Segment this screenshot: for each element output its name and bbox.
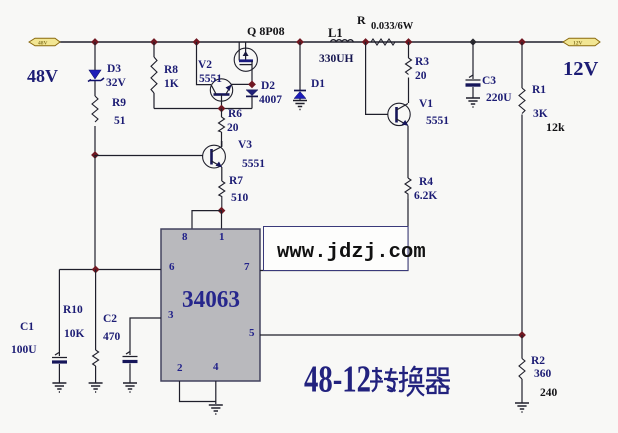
node R6 junction <box>218 105 226 113</box>
svg-text:12V: 12V <box>573 41 583 47</box>
svg-text:C2: C2 <box>103 313 117 325</box>
wire V3 base <box>95 155 203 157</box>
svg-text:8: 8 <box>182 231 188 243</box>
svg-text:D1: D1 <box>311 78 325 90</box>
node rail junction x300 <box>296 38 304 46</box>
node rail junction C3 <box>469 38 476 45</box>
wire pin2 pin4 to ground <box>180 381 216 404</box>
svg-text:C3: C3 <box>482 75 496 87</box>
svg-text:20: 20 <box>227 122 239 134</box>
svg-text:1: 1 <box>219 231 225 243</box>
svg-text:100U: 100U <box>11 344 37 356</box>
glyph 器 <box>426 369 450 394</box>
connector 48V input <box>29 38 60 46</box>
svg-text:0.033/6W: 0.033/6W <box>371 21 414 32</box>
node rail junction x522 <box>518 38 526 46</box>
svg-text:5551: 5551 <box>426 115 449 127</box>
svg-text:240: 240 <box>540 387 558 399</box>
wire V2 collector from rail <box>197 42 212 85</box>
svg-text:D3: D3 <box>107 63 121 75</box>
wire V3 emitter to R7 <box>221 167 223 181</box>
wire pin5 <box>260 334 522 336</box>
svg-text:5551: 5551 <box>199 73 222 85</box>
svg-text:L1: L1 <box>328 26 343 40</box>
capacitor C3 <box>466 42 481 98</box>
svg-text:R3: R3 <box>415 56 429 68</box>
node pin6 junction <box>92 266 100 274</box>
resistor R4 <box>405 178 411 199</box>
svg-text:6.2K: 6.2K <box>414 190 437 202</box>
node D2 junction <box>248 81 256 89</box>
capacitor C2 <box>123 318 162 383</box>
wire left column down <box>94 155 96 270</box>
svg-text:6: 6 <box>169 261 175 273</box>
ground R10 <box>89 383 103 392</box>
svg-text:R1: R1 <box>532 84 546 96</box>
svg-text:34063: 34063 <box>182 287 240 313</box>
wire pin6 <box>59 269 161 271</box>
wire top rail 48V to 12V <box>59 41 564 43</box>
node rail junction x154 <box>150 38 158 46</box>
resistor R1 <box>519 42 525 335</box>
svg-text:R8: R8 <box>164 64 178 76</box>
svg-text:48-12: 48-12 <box>304 359 371 401</box>
label 48-12 converter title <box>304 359 371 401</box>
resistor R7 <box>219 181 225 211</box>
node pin1 junction <box>218 207 226 215</box>
svg-text:48V: 48V <box>38 41 48 47</box>
resistor R10 <box>93 270 99 384</box>
glyph 转 <box>370 367 398 392</box>
node rail junction x365.6 <box>362 38 370 46</box>
wire V1 base <box>366 42 388 114</box>
svg-text:32V: 32V <box>106 77 127 89</box>
node B: junction x95 y155 <box>91 151 99 159</box>
svg-text:V1: V1 <box>419 98 433 110</box>
svg-text:C1: C1 <box>20 321 34 333</box>
IC U1 34063 <box>161 229 260 381</box>
svg-text:470: 470 <box>103 331 121 343</box>
svg-text:1K: 1K <box>164 78 179 90</box>
svg-text:3K: 3K <box>533 108 548 120</box>
wire pin8 pin1 link <box>192 211 222 229</box>
diode D1 <box>294 42 306 101</box>
svg-text:Q 8P08: Q 8P08 <box>247 24 285 38</box>
resistor R2 <box>519 335 525 403</box>
transistor V1 <box>388 103 410 126</box>
resistor R6 <box>219 109 225 147</box>
inductor L1 <box>331 40 354 43</box>
ground R2 <box>515 403 529 412</box>
svg-text:5551: 5551 <box>242 158 265 170</box>
wire R6 to V3 <box>221 141 223 147</box>
svg-text:5: 5 <box>249 327 255 339</box>
wire base row y108.5 <box>154 108 252 110</box>
svg-text:D2: D2 <box>261 80 275 92</box>
svg-text:360: 360 <box>534 368 552 380</box>
svg-text:20: 20 <box>415 70 427 82</box>
svg-text:51: 51 <box>114 115 126 127</box>
svg-text:R4: R4 <box>419 176 433 188</box>
svg-text:3: 3 <box>168 309 174 321</box>
svg-text:2: 2 <box>177 362 183 374</box>
transistor V2 <box>210 79 232 109</box>
glyph 换 <box>399 366 425 396</box>
node rail junction x408.5 <box>405 38 413 46</box>
node rail junction x196.5 <box>193 38 201 46</box>
capacitor C1 <box>52 270 67 384</box>
svg-text:4: 4 <box>213 361 219 373</box>
svg-text:V2: V2 <box>198 59 212 71</box>
svg-text:R9: R9 <box>112 97 126 109</box>
svg-text:510: 510 <box>231 192 249 204</box>
ground C3 <box>466 98 480 107</box>
resistor R3 <box>406 42 412 103</box>
wire 48V branch down <box>94 42 96 155</box>
svg-text:12k: 12k <box>546 120 565 134</box>
svg-text:4007: 4007 <box>259 94 282 106</box>
svg-text:R2: R2 <box>531 355 545 367</box>
mosfet Q 8P08 <box>234 42 257 84</box>
svg-text:V3: V3 <box>238 139 252 151</box>
svg-text:220U: 220U <box>486 92 512 104</box>
box www.jdzj.com <box>264 227 426 271</box>
ground pin4 <box>209 405 223 414</box>
connector 12V output <box>563 38 600 46</box>
wire V1 emitter to R4 <box>407 126 409 178</box>
svg-text:48V: 48V <box>27 66 58 86</box>
resistor R sense 0.033/6W <box>371 39 395 45</box>
svg-text:330UH: 330UH <box>319 53 354 65</box>
ground C1 <box>52 383 66 392</box>
svg-text:7: 7 <box>244 261 250 273</box>
svg-text:R: R <box>357 13 366 27</box>
svg-text:10K: 10K <box>64 328 85 340</box>
ground C2 <box>123 383 137 392</box>
svg-text:R7: R7 <box>229 175 243 187</box>
transistor V3 <box>203 141 226 168</box>
node pin5 junction <box>518 331 526 339</box>
resistor R8 <box>151 42 157 109</box>
wire V2 emitter to D2 node <box>231 83 252 85</box>
svg-text:www.jdzj.com: www.jdzj.com <box>277 241 426 264</box>
svg-text:R10: R10 <box>63 304 83 316</box>
zener D3 <box>88 70 104 82</box>
node A: rail junction x95 <box>91 38 99 46</box>
diode D2 <box>246 90 258 109</box>
resistor R9 <box>92 96 98 122</box>
svg-text:R6: R6 <box>228 108 242 120</box>
wire pin7 <box>260 199 408 271</box>
svg-text:12V: 12V <box>563 58 599 80</box>
ground D1 <box>293 101 307 110</box>
